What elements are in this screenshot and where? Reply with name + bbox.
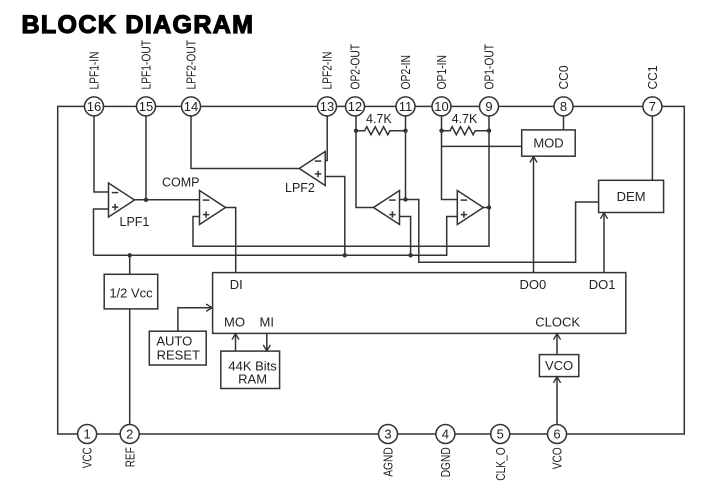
wire pin14 to LPF2 output xyxy=(191,116,299,169)
wire pin16 to LPF1 minus input xyxy=(94,116,109,192)
op-amp LPF1 xyxy=(109,183,135,217)
pin 4 xyxy=(436,425,455,444)
wire MO to RAM (arrow up) xyxy=(235,333,237,351)
wire VCO box to CLOCK input xyxy=(556,333,558,354)
1/2 Vcc block xyxy=(104,274,158,309)
op-amp OP1 xyxy=(457,191,483,225)
junction dot OP1 output/pin9 xyxy=(487,205,491,209)
svg-text:DO1: DO1 xyxy=(589,277,616,292)
arrowhead VCO to CLOCK up xyxy=(554,334,561,340)
pin 14 xyxy=(182,97,201,116)
pin 15 xyxy=(137,97,156,116)
svg-text:CC1: CC1 xyxy=(646,65,660,89)
svg-text:LPF1-OUT: LPF1-OUT xyxy=(140,40,154,90)
svg-text:COMP: COMP xyxy=(162,176,200,190)
DEM block xyxy=(599,180,664,212)
arrowhead into logic block from AUTO RESET xyxy=(207,304,213,311)
block and component labels xyxy=(109,112,645,386)
svg-text:OP2-OUT: OP2-OUT xyxy=(349,44,363,90)
svg-text:LPF2: LPF2 xyxy=(285,181,315,195)
wire LPF2 plus input to reference line xyxy=(325,177,345,256)
pin 16 xyxy=(85,97,104,116)
svg-text:AUTO: AUTO xyxy=(156,334,192,349)
svg-text:4.7K: 4.7K xyxy=(366,112,392,126)
svg-text:4.7K: 4.7K xyxy=(452,112,478,126)
svg-text:VCO: VCO xyxy=(545,358,573,373)
pin 9 xyxy=(480,97,499,116)
junction dot R2 right xyxy=(487,129,491,133)
pin 2 xyxy=(120,425,139,444)
junction dot reference/half-Vcc xyxy=(128,253,132,257)
logic block (DI MO MI DO0 DO1 CLOCK) xyxy=(213,273,626,334)
pin circles top row xyxy=(78,97,662,444)
svg-text:4: 4 xyxy=(442,427,449,442)
wire pin15 down to LPF1 output node xyxy=(145,116,147,200)
MOD block xyxy=(522,130,576,156)
pin 10 xyxy=(432,97,451,116)
wire pin13 to LPF2 minus input xyxy=(325,116,327,161)
wire pin10 node to MOD input xyxy=(442,145,522,147)
svg-text:5: 5 xyxy=(497,427,504,442)
svg-text:9: 9 xyxy=(485,99,492,114)
arrowhead pin6 to VCO up xyxy=(554,377,561,383)
svg-text:MOD: MOD xyxy=(533,136,563,151)
svg-text:15: 15 xyxy=(139,99,153,114)
svg-text:OP1-OUT: OP1-OUT xyxy=(483,44,497,90)
svg-text:REF: REF xyxy=(123,447,137,467)
svg-text:OP2-IN: OP2-IN xyxy=(399,55,413,90)
wire MI to RAM (arrow down) xyxy=(266,333,268,351)
svg-text:VCC: VCC xyxy=(81,447,95,468)
svg-text:LPF2-OUT: LPF2-OUT xyxy=(185,40,199,90)
wire LPF1 plus input to reference line xyxy=(94,209,109,255)
pin 8 xyxy=(554,97,573,116)
svg-text:DEM: DEM xyxy=(617,189,646,204)
junction dot reference/OP2 plus xyxy=(408,253,412,257)
44K Bits RAM block xyxy=(221,351,280,388)
rotated pin labels top xyxy=(88,40,660,90)
junction dot pin15/LPF1 out xyxy=(144,198,148,202)
svg-text:7: 7 xyxy=(649,99,656,114)
wire pin6 to VCO box xyxy=(556,377,558,425)
svg-text:RAM: RAM xyxy=(238,371,267,386)
svg-text:LPF1-IN: LPF1-IN xyxy=(88,52,102,90)
svg-text:CLK_O: CLK_O xyxy=(494,447,508,481)
wire LPF1 output to COMP minus input xyxy=(135,199,200,201)
svg-text:DI: DI xyxy=(230,277,243,292)
svg-text:DO0: DO0 xyxy=(520,277,547,292)
svg-text:VCO: VCO xyxy=(551,447,565,469)
chip outline border xyxy=(58,106,685,434)
svg-text:LPF1: LPF1 xyxy=(120,215,150,229)
op-amp LPF2 (points left) xyxy=(299,152,325,186)
svg-text:RESET: RESET xyxy=(157,347,200,362)
pin 5 xyxy=(491,425,510,444)
wire reference dot to 1/2 Vcc box top xyxy=(129,255,131,274)
svg-text:CC0: CC0 xyxy=(557,65,571,89)
wire pin10 to OP1 minus input xyxy=(442,116,458,200)
resistor R2 4.7K between pin10 and pin9 xyxy=(442,127,490,135)
wire pin8 to MOD top xyxy=(563,116,565,130)
svg-text:LPF2-IN: LPF2-IN xyxy=(321,52,335,90)
pin 1 xyxy=(78,425,97,444)
svg-text:MO: MO xyxy=(224,315,245,330)
wire 1/2 Vcc box bottom to pin2 xyxy=(129,309,131,425)
svg-text:CLOCK: CLOCK xyxy=(535,315,580,330)
svg-text:3: 3 xyxy=(384,427,391,442)
wire pin12 to OP2 output xyxy=(356,116,374,208)
wire OP1 output to pin9 line xyxy=(483,207,489,209)
arrowhead MO up xyxy=(232,334,239,340)
junction dot reference/LPF2 plus xyxy=(343,253,347,257)
junction dot R1 left xyxy=(354,129,358,133)
wire OP2 plus input to reference line xyxy=(400,217,411,256)
wire DO1 to DEM arrow line xyxy=(603,213,605,273)
AUTO RESET block xyxy=(149,331,206,365)
pin 13 xyxy=(318,97,337,116)
wire DO0 to MOD arrow line xyxy=(533,156,535,272)
junction dot OP2 minus node xyxy=(403,197,407,201)
arrowhead DO1 to DEM up xyxy=(601,213,608,219)
wire OP2 minus node to DEM input xyxy=(400,200,599,263)
pin 11 xyxy=(396,97,415,116)
op-amp OP2 (points left) xyxy=(374,191,400,225)
arrowhead MI down xyxy=(264,345,271,351)
resistor R1 4.7K between pin12 and pin11 xyxy=(356,127,406,135)
svg-text:10: 10 xyxy=(434,99,448,114)
pin 12 xyxy=(346,97,365,116)
svg-text:12: 12 xyxy=(348,99,362,114)
junction dot R2 left xyxy=(439,129,443,133)
svg-text:BLOCK DIAGRAM: BLOCK DIAGRAM xyxy=(22,11,255,39)
svg-text:8: 8 xyxy=(560,99,567,114)
op-amp COMP xyxy=(200,191,226,225)
svg-text:11: 11 xyxy=(399,99,413,114)
rotated pin labels bottom xyxy=(81,447,565,481)
VCO block xyxy=(539,355,578,377)
wire reference line (1/2 Vcc rail) xyxy=(94,217,458,256)
svg-text:14: 14 xyxy=(184,99,198,114)
arrowhead DO0 to MOD up xyxy=(530,156,537,162)
wire pin11 to OP2 minus node xyxy=(405,116,407,200)
wire COMP plus feedback to OP1 output line xyxy=(193,116,489,246)
svg-text:13: 13 xyxy=(320,99,334,114)
pin 7 xyxy=(643,97,662,116)
wire COMP output to DI input of logic block xyxy=(226,208,236,273)
wire pin7 to DEM top xyxy=(651,116,653,180)
svg-text:AGND: AGND xyxy=(382,447,396,477)
svg-text:2: 2 xyxy=(126,427,133,442)
pin 6 xyxy=(548,425,567,444)
svg-text:1: 1 xyxy=(83,427,90,442)
junction dot R1 right xyxy=(403,129,407,133)
svg-text:MI: MI xyxy=(260,315,274,330)
wire AUTO RESET to logic block left xyxy=(178,308,212,332)
svg-text:DGND: DGND xyxy=(439,447,453,477)
pin 3 xyxy=(379,425,398,444)
svg-text:1/2 Vcc: 1/2 Vcc xyxy=(109,286,153,301)
svg-text:16: 16 xyxy=(87,99,101,114)
svg-text:OP1-IN: OP1-IN xyxy=(435,55,449,90)
svg-text:6: 6 xyxy=(553,427,560,442)
